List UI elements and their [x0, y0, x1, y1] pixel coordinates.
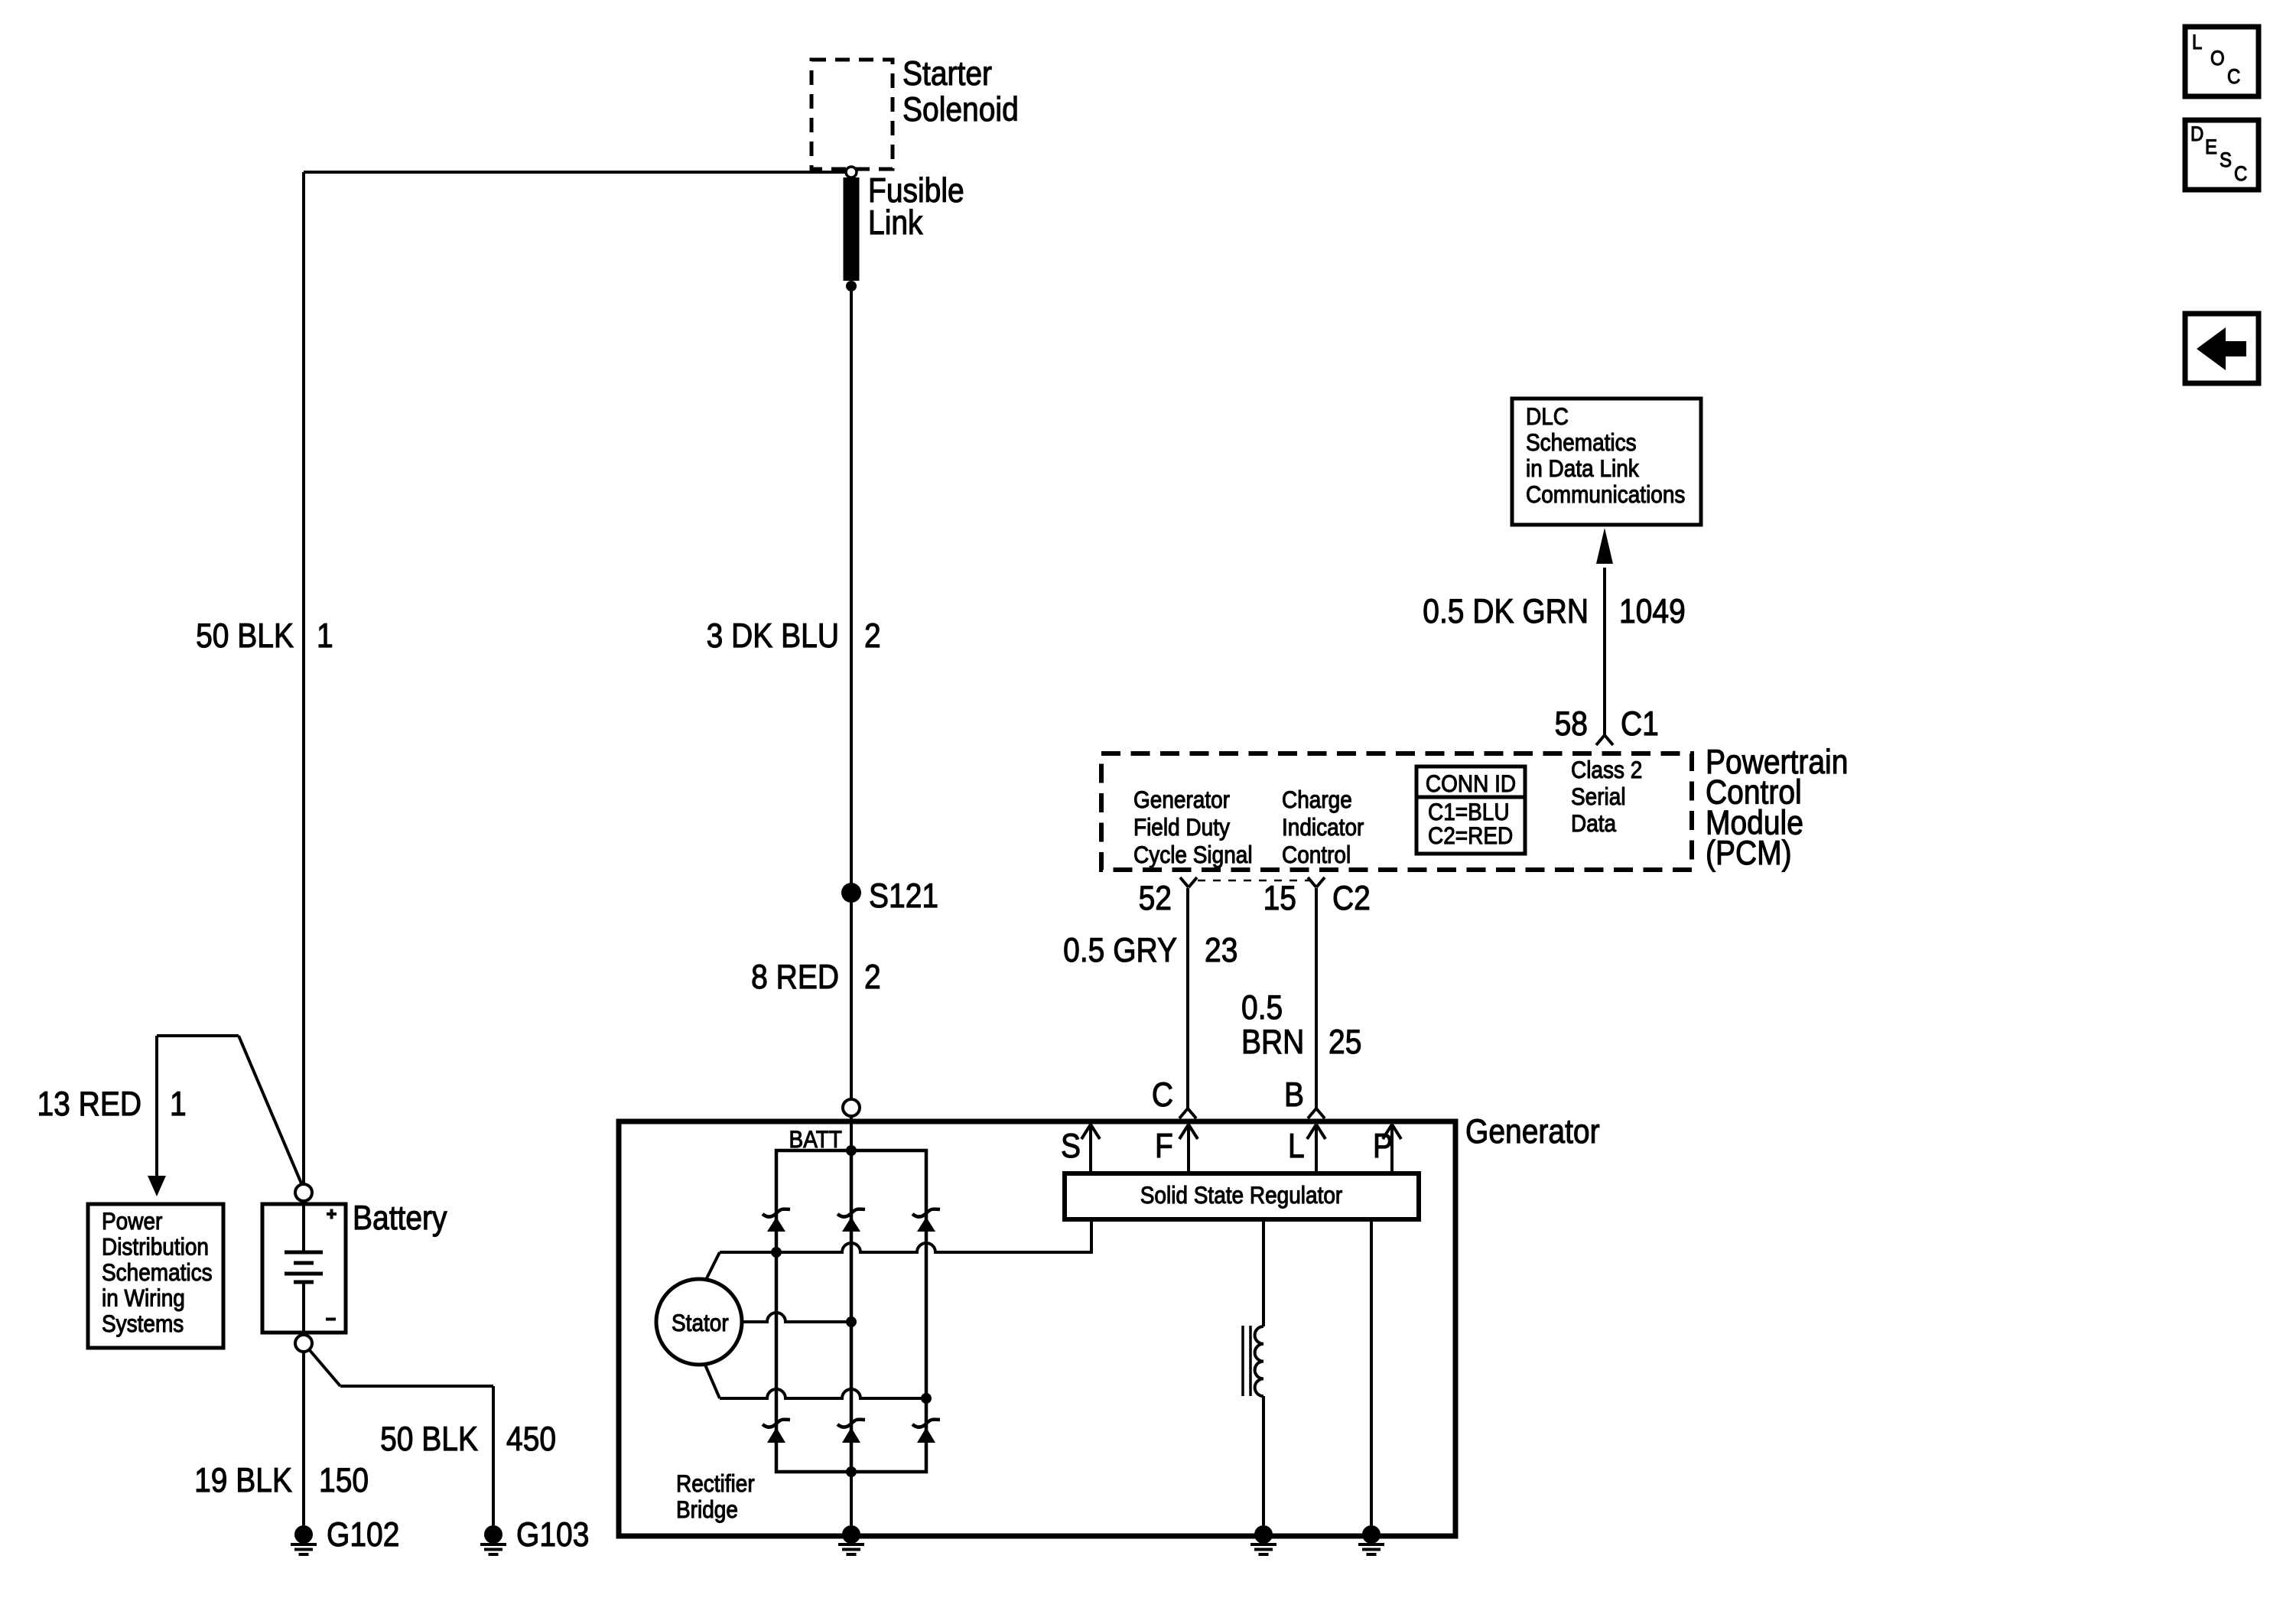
svg-text:Communications: Communications [1526, 481, 1685, 508]
svg-text:58: 58 [1555, 705, 1588, 743]
svg-text:S: S [2220, 149, 2232, 172]
svg-text:Solid State Regulator: Solid State Regulator [1140, 1182, 1343, 1209]
svg-text:Generator: Generator [1133, 786, 1230, 813]
svg-text:Cycle Signal: Cycle Signal [1133, 841, 1253, 868]
svg-text:D: D [2190, 123, 2203, 146]
svg-text:O: O [2210, 47, 2225, 70]
svg-text:Schematics: Schematics [102, 1259, 213, 1286]
svg-text:BRN: BRN [1241, 1023, 1304, 1061]
svg-text:Field Duty: Field Duty [1133, 814, 1230, 841]
svg-text:3 DK BLU: 3 DK BLU [707, 617, 839, 655]
svg-text:8 RED: 8 RED [751, 958, 839, 996]
svg-text:Power: Power [102, 1208, 162, 1235]
svg-text:15: 15 [1263, 879, 1296, 917]
svg-text:Stator: Stator [672, 1310, 729, 1336]
svg-text:13 RED: 13 RED [37, 1085, 141, 1123]
svg-text:Indicator: Indicator [1282, 814, 1364, 841]
svg-text:E: E [2205, 136, 2217, 159]
svg-text:Charge: Charge [1282, 786, 1352, 813]
svg-text:Rectifier: Rectifier [676, 1470, 755, 1497]
svg-text:Bridge: Bridge [676, 1496, 738, 1523]
svg-text:L: L [2192, 31, 2202, 54]
svg-text:Link: Link [868, 203, 923, 242]
svg-text:F: F [1155, 1127, 1173, 1165]
svg-text:S121: S121 [869, 877, 938, 915]
svg-text:L: L [1288, 1127, 1305, 1165]
svg-text:1: 1 [170, 1085, 187, 1123]
svg-text:Schematics: Schematics [1526, 429, 1637, 456]
svg-text:25: 25 [1328, 1023, 1361, 1061]
svg-text:C: C [2227, 66, 2240, 89]
svg-text:C1: C1 [1621, 705, 1659, 743]
svg-text:Solenoid: Solenoid [902, 90, 1019, 129]
svg-text:0.5 DK GRN: 0.5 DK GRN [1423, 592, 1589, 630]
svg-text:0.5 GRY: 0.5 GRY [1063, 931, 1177, 969]
svg-text:Generator: Generator [1465, 1112, 1600, 1150]
svg-text:450: 450 [506, 1420, 556, 1458]
svg-text:C2=RED: C2=RED [1428, 822, 1513, 849]
svg-text:C1=BLU: C1=BLU [1428, 799, 1510, 825]
svg-text:Serial: Serial [1571, 783, 1626, 810]
svg-text:Class 2: Class 2 [1571, 757, 1642, 783]
svg-text:Battery: Battery [353, 1199, 447, 1237]
svg-text:1: 1 [317, 617, 333, 655]
svg-text:50 BLK: 50 BLK [196, 617, 294, 655]
svg-text:Starter: Starter [902, 54, 992, 93]
svg-text:DLC: DLC [1526, 403, 1569, 430]
svg-text:G102: G102 [327, 1515, 399, 1554]
svg-text:Distribution: Distribution [102, 1234, 209, 1261]
svg-text:Data: Data [1571, 810, 1616, 837]
svg-text:CONN ID: CONN ID [1426, 770, 1516, 797]
svg-text:C: C [2234, 163, 2247, 186]
svg-text:50 BLK: 50 BLK [380, 1420, 478, 1458]
svg-text:S: S [1061, 1127, 1081, 1165]
svg-text:B: B [1284, 1076, 1304, 1114]
svg-text:(PCM): (PCM) [1706, 834, 1792, 872]
svg-text:52: 52 [1139, 879, 1172, 917]
svg-text:G103: G103 [516, 1515, 589, 1554]
svg-text:Systems: Systems [102, 1310, 184, 1337]
svg-text:in Wiring: in Wiring [102, 1285, 185, 1312]
svg-text:Control: Control [1282, 841, 1351, 868]
svg-text:1049: 1049 [1619, 592, 1686, 630]
svg-text:P: P [1373, 1127, 1393, 1165]
svg-text:C2: C2 [1332, 879, 1371, 917]
svg-text:in Data Link: in Data Link [1526, 455, 1639, 482]
svg-text:19 BLK: 19 BLK [194, 1461, 292, 1499]
svg-text:0.5: 0.5 [1241, 988, 1283, 1027]
svg-text:2: 2 [864, 617, 881, 655]
svg-text:150: 150 [319, 1461, 369, 1499]
svg-text:C: C [1152, 1076, 1173, 1114]
svg-text:2: 2 [864, 958, 881, 996]
svg-text:23: 23 [1205, 931, 1237, 969]
